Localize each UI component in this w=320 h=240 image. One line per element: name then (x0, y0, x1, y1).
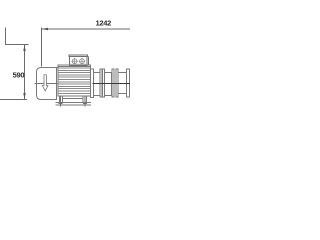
coupling flange pair 2 (112, 69, 114, 97)
motor top seam (58, 66, 90, 68)
coupling flange pair 1 (100, 69, 102, 97)
end flange at image edge (126, 69, 129, 97)
cut-off witness line top-left (5, 28, 7, 46)
arrowhead down of dimension 590 (23, 93, 25, 100)
extension line (horizontal) bottom of 590 (0, 99, 27, 101)
shaft centerline (93, 83, 131, 85)
extension line (vertical) for 1242 at pump discharge (41, 28, 43, 67)
dimension line 590 (vertical) (24, 45, 26, 100)
terminal box on motor (69, 57, 87, 66)
arrowhead left of dimension 1242 (42, 28, 49, 30)
motor underside line between feet (63, 98, 84, 100)
flow arrow (hollow, pointing down) (42, 75, 48, 91)
pump volute casing (37, 68, 57, 100)
terminal box inner seam (69, 63, 87, 65)
arrowhead up of dimension 590 (23, 45, 25, 52)
pump centerline (35, 83, 59, 85)
motor end shield (91, 69, 94, 98)
motor foot left (59, 96, 62, 102)
extension line (horizontal) top of 590 (5, 44, 28, 46)
shaft cylinder 1 (94, 72, 100, 95)
base rail bottom (56, 104, 92, 106)
terminal box right flange (88, 57, 90, 66)
shaft cylinder 3 (118, 73, 126, 94)
motor foot right (83, 96, 86, 102)
terminal box gland bolt left (71, 58, 78, 65)
anchor bolt right (84, 96, 86, 107)
anchor bolt left (60, 96, 62, 107)
pump top line (42, 67, 59, 69)
motor cooling fins (58, 68, 90, 93)
svg-text:1242: 1242 (96, 18, 112, 27)
svg-text:590: 590 (13, 70, 25, 79)
motor body (58, 65, 90, 96)
terminal box gland bolt right (79, 58, 86, 65)
dimension line 1242 (42, 28, 131, 30)
terminal box lid (69, 55, 88, 57)
base rail top (56, 101, 92, 103)
shaft cylinder 2 (104, 72, 111, 95)
